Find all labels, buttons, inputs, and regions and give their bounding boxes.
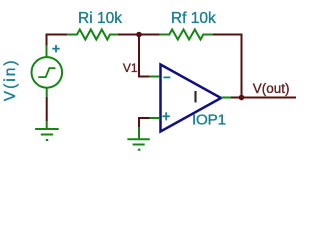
minus input mark: [163, 76, 170, 78]
wire: node V1 down to op-amp inverting input: [139, 37, 150, 77]
lead: ground lead under op-amp (green): [138, 127, 140, 138]
resistor Ri: [67, 30, 117, 40]
wire: source to ground (maroon): [46, 97, 48, 121]
lead: inverting input (green): [150, 76, 160, 78]
wire: node V1 to Rf: [139, 34, 160, 36]
wire: source top lead (green): [46, 46, 48, 58]
wire: output node to edge: [242, 97, 297, 99]
wire: Rf to output node: [213, 35, 242, 98]
lead: non-inverting input (green): [150, 117, 160, 119]
wire: source top corner to Ri (maroon): [47, 35, 68, 46]
plus polarity mark: [52, 45, 59, 52]
node V(out) junction dot: [239, 95, 245, 101]
resistor Rf: [160, 30, 213, 40]
lead: source bottom (green): [46, 88, 48, 97]
op-amp IOP1 triangle: [161, 65, 222, 132]
svg-text:V(out): V(out): [253, 81, 290, 96]
source ramp symbol: [38, 68, 55, 77]
svg-text:IOP1: IOP1: [192, 112, 226, 129]
svg-text:V(in): V(in): [2, 58, 19, 101]
plus input mark: [162, 112, 170, 120]
svg-text:Ri 10k: Ri 10k: [78, 10, 122, 27]
lead: ground lead under source (green): [46, 121, 48, 128]
wire: Ri to node V1: [118, 34, 139, 36]
wire: non-inverting input to ground (maroon): [139, 118, 150, 127]
svg-text:Rf 10k: Rf 10k: [171, 10, 216, 27]
ground under source: [35, 129, 59, 140]
svg-text:V1: V1: [123, 61, 138, 75]
ground under op-amp: [127, 139, 149, 149]
source V(in) circle: [32, 57, 63, 88]
node V1 junction dot: [136, 32, 142, 38]
op-amp ideal marker I: [194, 91, 196, 102]
wire: output lead to node (maroon): [231, 97, 242, 99]
lead: op-amp output (green): [221, 97, 231, 99]
